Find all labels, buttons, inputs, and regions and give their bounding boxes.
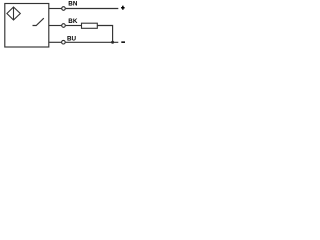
svg-text:BU: BU <box>67 35 77 42</box>
svg-text:BK: BK <box>68 18 78 25</box>
svg-text:BN: BN <box>68 1 78 8</box>
